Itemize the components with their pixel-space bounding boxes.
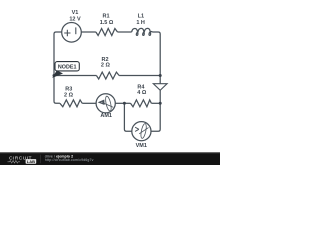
junction AM1 output / VM1 branch [123,102,126,105]
inductor L1 [132,28,153,35]
resistor R1 [96,29,118,36]
node NODE1 label box [55,62,79,71]
wire: below ground triangle to R4 row [159,90,161,103]
svg-text:1 H: 1 H [136,20,145,26]
ammeter AM1 [96,94,115,113]
svg-text:1.5 Ω: 1.5 Ω [100,20,114,26]
wire: top-left corner and left column down to R3 [54,32,62,103]
svg-text:V1: V1 [72,10,79,16]
wire: R1 to L1 [118,31,132,33]
svg-text:VM1: VM1 [136,143,147,149]
wire: L1 to top-right corner and right column down to node at R2 [153,32,161,76]
svg-text:http://circuitlab.com/c9d6g7v: http://circuitlab.com/c9d6g7v [45,158,94,162]
letter A / needle head inside ammeter (apex left) [99,100,105,105]
wire: ground stub [159,76,161,84]
voltmeter VM1 [132,122,151,141]
footer bar [0,153,220,165]
wire: right column R4 row down to VM1 [151,103,160,131]
svg-text:R1: R1 [102,13,109,19]
svg-text:4 Ω: 4 Ω [137,90,147,96]
svg-text:2 Ω: 2 Ω [64,92,74,98]
resistor R2 [96,72,119,79]
letter V inside voltmeter (rotated, apex right) [135,127,139,131]
ground [153,84,167,91]
svg-text:2 Ω: 2 Ω [101,62,111,68]
voltage source V1 [62,23,82,43]
junction at right column and R2 [159,74,162,77]
wire: V1 to R1 [81,31,96,33]
footer separator [39,155,42,164]
CircuitLab logo squiggle [8,161,21,164]
wire: VM1 branch from junction down and right [124,103,131,131]
junction NODE1 on left column [53,74,56,77]
wire: AM1 to R4 [115,102,130,104]
svg-text:12 V: 12 V [69,16,81,22]
svg-text:AM1: AM1 [100,113,112,119]
svg-text:LAB: LAB [27,159,35,164]
svg-text:NODE1: NODE1 [58,64,77,70]
junction R4 right / right column [159,102,162,105]
svg-text:L1: L1 [138,14,144,20]
wire: R3 to AM1 [82,102,96,104]
wire: R2 row left segment [54,75,96,77]
CircuitLab logo LAB box [26,159,37,164]
resistor R3 [60,100,82,107]
resistor R4 [131,100,152,107]
node NODE1 flag pointer [52,70,63,78]
wire: R4 to right column [151,102,160,104]
wire: R2 row right segment [119,75,160,77]
